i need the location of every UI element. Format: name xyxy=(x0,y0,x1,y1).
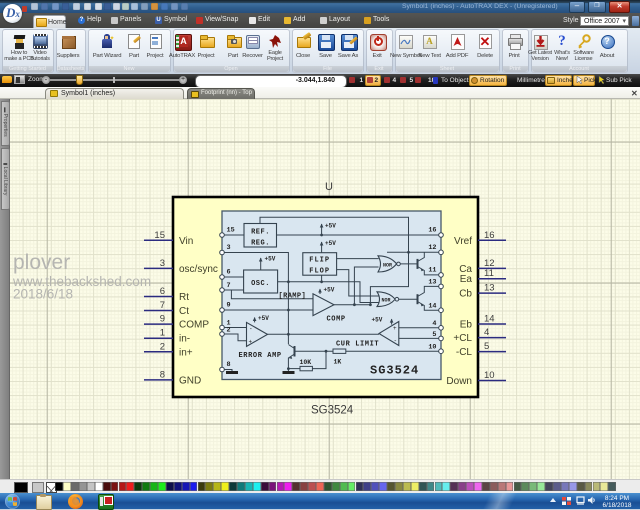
pin 16 (Vref) right xyxy=(478,239,506,241)
tab Footprint xyxy=(187,88,255,99)
wire trB emitter lead xyxy=(418,302,442,311)
schematic canvas xyxy=(10,99,640,479)
svg-text:3: 3 xyxy=(160,258,165,269)
svg-text:FLIP: FLIP xyxy=(309,257,330,265)
style selector xyxy=(563,17,579,24)
ERROR AMP triangle xyxy=(247,322,268,346)
internal block diagram panel xyxy=(222,211,441,380)
transistor Qc (shutdown) xyxy=(294,346,296,357)
svg-text:6: 6 xyxy=(227,269,231,277)
right edge connection nodes xyxy=(439,233,444,238)
wire COMP out xyxy=(334,304,370,306)
wire pin4 to curlimit xyxy=(399,327,441,329)
svg-text:14: 14 xyxy=(428,303,436,311)
wire +5V arrow 1 xyxy=(321,224,323,235)
svg-text:+5V: +5V xyxy=(265,256,276,263)
button Save xyxy=(318,34,335,51)
button Print xyxy=(507,34,522,49)
wire FF out1 to NOR1 xyxy=(337,258,379,260)
svg-text:Vin: Vin xyxy=(179,236,193,247)
wire 10K branch xyxy=(312,351,326,368)
svg-text:OSC.: OSC. xyxy=(251,280,270,288)
svg-text:NOR: NOR xyxy=(383,262,392,268)
button Part xyxy=(226,34,241,49)
wire pin15 to REF xyxy=(222,234,244,236)
ribbon group Sheet xyxy=(395,29,500,73)
button Eagle Project xyxy=(268,34,283,49)
DX logo badge xyxy=(3,4,22,23)
svg-text:REF.: REF. xyxy=(251,229,270,237)
color palette bar xyxy=(0,479,640,493)
transistor Qa bars xyxy=(417,259,419,269)
button Recover xyxy=(245,34,260,49)
junction dots xyxy=(287,234,410,370)
svg-text:+5V: +5V xyxy=(325,223,336,230)
Rotation button xyxy=(469,75,507,86)
svg-text:-CL: -CL xyxy=(456,347,473,358)
svg-text:osc/sync: osc/sync xyxy=(179,264,218,275)
svg-text:10K: 10K xyxy=(300,359,312,366)
svg-text:1: 1 xyxy=(160,328,165,339)
button About xyxy=(600,34,615,49)
CUR LIMIT comparator (points left) xyxy=(379,322,399,346)
wire pin9 to COMP xyxy=(222,309,313,311)
wire FF out2 to NOR2 xyxy=(337,270,379,296)
ground under Qc xyxy=(283,371,295,374)
left edge connection nodes xyxy=(220,233,225,238)
pinned: AutoTRAX app xyxy=(98,494,114,510)
pin 2 (in+) left xyxy=(144,351,173,353)
svg-text:11: 11 xyxy=(428,267,436,275)
wire trA emitter lead xyxy=(418,267,442,275)
ground at pin 8 xyxy=(226,371,238,374)
svg-text:16: 16 xyxy=(428,227,436,235)
button Exit xyxy=(370,34,387,51)
wire OSC output bus xyxy=(278,282,379,303)
svg-text:Vref: Vref xyxy=(454,236,472,247)
tab Symbol1 xyxy=(45,88,184,100)
pin 14 (Eb) right xyxy=(478,323,506,325)
button New Text xyxy=(422,34,437,49)
svg-text:10: 10 xyxy=(428,344,436,352)
+5V arrow FF xyxy=(320,242,324,246)
svg-text:-: - xyxy=(394,338,398,345)
windows taskbar xyxy=(0,493,640,509)
svg-text:7: 7 xyxy=(160,300,165,311)
pin 11 (Ea) right xyxy=(478,278,506,280)
wire trC collector xyxy=(288,345,294,349)
svg-text:12: 12 xyxy=(428,244,436,252)
Home tab (active) xyxy=(33,15,66,28)
button Delete xyxy=(478,34,493,49)
svg-text:4: 4 xyxy=(484,327,489,338)
ribbon tab row xyxy=(0,13,640,28)
button How to make a PCB xyxy=(12,34,27,49)
svg-text:6: 6 xyxy=(160,286,165,297)
button What's New! xyxy=(555,34,570,49)
zoom/status bar xyxy=(0,74,640,87)
ribbon group Datasheets xyxy=(56,29,86,73)
wire OSC +5V arrow xyxy=(260,258,262,270)
wire erroramp +5V arrow xyxy=(254,318,256,323)
wire transistorB base xyxy=(399,298,418,300)
Inches button xyxy=(545,75,572,86)
svg-text:11: 11 xyxy=(484,268,494,279)
svg-text:9: 9 xyxy=(227,302,231,310)
wire pin8 to ground xyxy=(222,370,232,372)
wire trC emitter xyxy=(288,354,294,371)
svg-text:FLOP: FLOP xyxy=(309,268,330,276)
svg-text:NOR: NOR xyxy=(382,298,391,304)
pinned: firefox xyxy=(68,494,83,509)
svg-text:+5V: +5V xyxy=(372,317,383,324)
pin 4 (+CL) right xyxy=(478,337,506,339)
ribbon group File xyxy=(292,29,364,73)
ribbon background xyxy=(0,28,640,75)
svg-text:SG3524: SG3524 xyxy=(311,405,354,417)
wire FF bottom stub xyxy=(321,275,323,282)
wire trA collector lead xyxy=(418,252,425,261)
Pick button xyxy=(573,75,595,86)
button Save As xyxy=(341,34,358,51)
button Suppliers xyxy=(61,34,76,49)
OSC block xyxy=(244,270,278,293)
svg-text:4: 4 xyxy=(432,320,436,328)
button Project xyxy=(148,34,163,49)
FLIP FLOP block xyxy=(303,253,337,276)
button Close xyxy=(296,34,311,49)
svg-text:SG3524: SG3524 xyxy=(370,364,419,378)
wire transistorA base xyxy=(400,263,417,265)
svg-text:8: 8 xyxy=(160,369,165,380)
coordinate readout xyxy=(195,75,347,88)
wire ramp from pin7 xyxy=(231,290,313,299)
pin 15 (Vin) left xyxy=(144,239,173,241)
wire +5V arrow 2 xyxy=(321,242,323,253)
svg-text:13: 13 xyxy=(484,283,495,294)
pin 12 (Ca) right xyxy=(478,267,506,269)
NOR gate 2 xyxy=(377,292,395,307)
svg-text:15: 15 xyxy=(227,227,235,235)
svg-text:U: U xyxy=(325,181,333,193)
svg-text:14: 14 xyxy=(484,314,495,325)
svg-text:8: 8 xyxy=(227,361,231,369)
pin 9 (COMP) left xyxy=(144,323,173,325)
svg-text:10: 10 xyxy=(484,370,495,381)
svg-text:+CL: +CL xyxy=(453,333,472,344)
svg-text:1K: 1K xyxy=(334,359,342,366)
svg-text:2018/6/18: 2018/6/18 xyxy=(13,287,73,302)
Properties vertical tab xyxy=(1,101,10,146)
wire 10K to ground node xyxy=(288,368,300,370)
svg-text:+5V: +5V xyxy=(324,287,335,294)
transistor Qb bars xyxy=(417,294,419,304)
pin 3 (osc/sync) left xyxy=(144,267,173,269)
svg-text:REG.: REG. xyxy=(251,240,270,248)
wire pin10 shutdown xyxy=(346,350,441,352)
NOR gate 1 xyxy=(378,256,397,272)
wire COMP +5V arrow xyxy=(319,289,321,294)
button Part Wizard xyxy=(100,34,115,49)
pin 10 (Down) right xyxy=(478,380,506,382)
ribbon group New xyxy=(88,29,171,73)
svg-text:+5V: +5V xyxy=(258,315,269,322)
button Get Latest Version xyxy=(533,34,548,49)
button AutoTRAX xyxy=(175,34,192,51)
svg-text:13: 13 xyxy=(428,279,436,287)
wire 1K to trC base xyxy=(296,350,334,352)
quick access toolbar icons xyxy=(31,3,38,10)
button Video Tutorials xyxy=(33,34,48,49)
svg-text:16: 16 xyxy=(484,230,495,241)
svg-text:7: 7 xyxy=(227,282,231,290)
ribbon group Open xyxy=(173,29,290,73)
resistor 1K xyxy=(333,349,346,353)
svg-text:+: + xyxy=(249,339,253,346)
svg-text:CUR LIMIT: CUR LIMIT xyxy=(336,341,379,349)
wire pin5 to curlimit xyxy=(399,337,441,339)
svg-text:Rt: Rt xyxy=(179,292,189,303)
svg-text:3: 3 xyxy=(227,244,231,252)
svg-text:15: 15 xyxy=(154,230,165,241)
+5V arrow COMP xyxy=(318,289,322,293)
pinned: clipboard app xyxy=(36,495,52,510)
start orb xyxy=(5,494,20,509)
wire pin1 to erroramp xyxy=(222,327,247,329)
pin 13 (Cb) right xyxy=(478,292,506,294)
ribbon group Account xyxy=(531,29,628,73)
resistor 10K xyxy=(300,366,312,370)
svg-text:+: + xyxy=(393,325,397,332)
svg-text:2: 2 xyxy=(160,341,165,352)
svg-text:Ct: Ct xyxy=(179,306,189,317)
button Software License xyxy=(576,34,591,49)
wire pin7 to OSC xyxy=(222,289,244,291)
svg-text:Eb: Eb xyxy=(460,320,473,331)
svg-text:Cb: Cb xyxy=(459,289,472,300)
wire erroramp output xyxy=(268,333,380,335)
ribbon group Exit xyxy=(366,29,393,73)
pin 8 (GND) left xyxy=(144,379,173,381)
svg-text:COMP: COMP xyxy=(327,316,346,324)
svg-text:plover: plover xyxy=(13,251,70,274)
canvas background xyxy=(10,99,640,479)
svg-text:COMP: COMP xyxy=(179,320,209,331)
pin 1 (in-) left xyxy=(144,337,173,339)
svg-text:+5V: +5V xyxy=(325,240,336,247)
svg-text:5: 5 xyxy=(484,341,489,352)
symbol body (yellow) xyxy=(173,197,478,397)
inactive ribbon tabs xyxy=(78,17,85,24)
button Add PDF xyxy=(450,34,465,49)
svg-text:9: 9 xyxy=(160,314,165,325)
window title text xyxy=(402,3,566,12)
clock xyxy=(598,495,636,509)
COMP comparator triangle xyxy=(313,294,334,316)
wire pin2 to erroramp xyxy=(222,334,247,341)
pin 7 (Ct) left xyxy=(144,310,173,312)
wire NOR1 in2 from COMP out xyxy=(354,267,378,305)
svg-text:Ea: Ea xyxy=(460,274,473,285)
wire pin3 osc/sync vertical xyxy=(222,253,288,345)
svg-text:2: 2 xyxy=(227,327,231,335)
svg-text:-: - xyxy=(249,326,253,333)
button New Symbol xyxy=(398,34,413,49)
wire pin12 collector rail xyxy=(387,251,441,253)
wire trB collector lead xyxy=(418,286,442,296)
+5V arrow OSC xyxy=(259,258,263,262)
+5V arrow ERROR AMP xyxy=(253,317,257,321)
+5V arrow top xyxy=(320,224,324,228)
button Part xyxy=(127,34,142,49)
ribbon group Getting Started xyxy=(2,29,54,73)
window buttons xyxy=(569,1,585,13)
REF REG block xyxy=(244,224,277,248)
svg-text:Down: Down xyxy=(446,376,472,387)
svg-text:in+: in+ xyxy=(179,347,193,358)
ribbon group Print xyxy=(502,29,529,73)
svg-text:GND: GND xyxy=(179,375,201,386)
+5V arrow CUR LIMIT xyxy=(390,319,394,323)
button Project xyxy=(199,34,214,49)
zoom preset buttons xyxy=(365,75,382,86)
wire REF to pin16 (+5V rail) xyxy=(277,234,442,236)
title bar xyxy=(0,0,640,13)
wire REF top rail xyxy=(260,217,409,305)
wire pin6 to OSC xyxy=(222,276,244,278)
Local Library vertical tab xyxy=(1,148,10,210)
tray icons xyxy=(550,498,556,502)
pin 6 (Rt) left xyxy=(144,296,173,298)
svg-text:5: 5 xyxy=(432,331,436,339)
pin 5 (-CL) right xyxy=(478,351,506,353)
palette swatches xyxy=(55,482,63,492)
wire curlimit +5V arrow xyxy=(391,319,393,325)
document tab row xyxy=(0,87,640,100)
svg-text:[RAMP]: [RAMP] xyxy=(279,293,307,301)
svg-text:ERROR AMP: ERROR AMP xyxy=(239,352,282,360)
svg-text:in-: in- xyxy=(179,334,190,345)
left sidebar xyxy=(0,99,10,479)
